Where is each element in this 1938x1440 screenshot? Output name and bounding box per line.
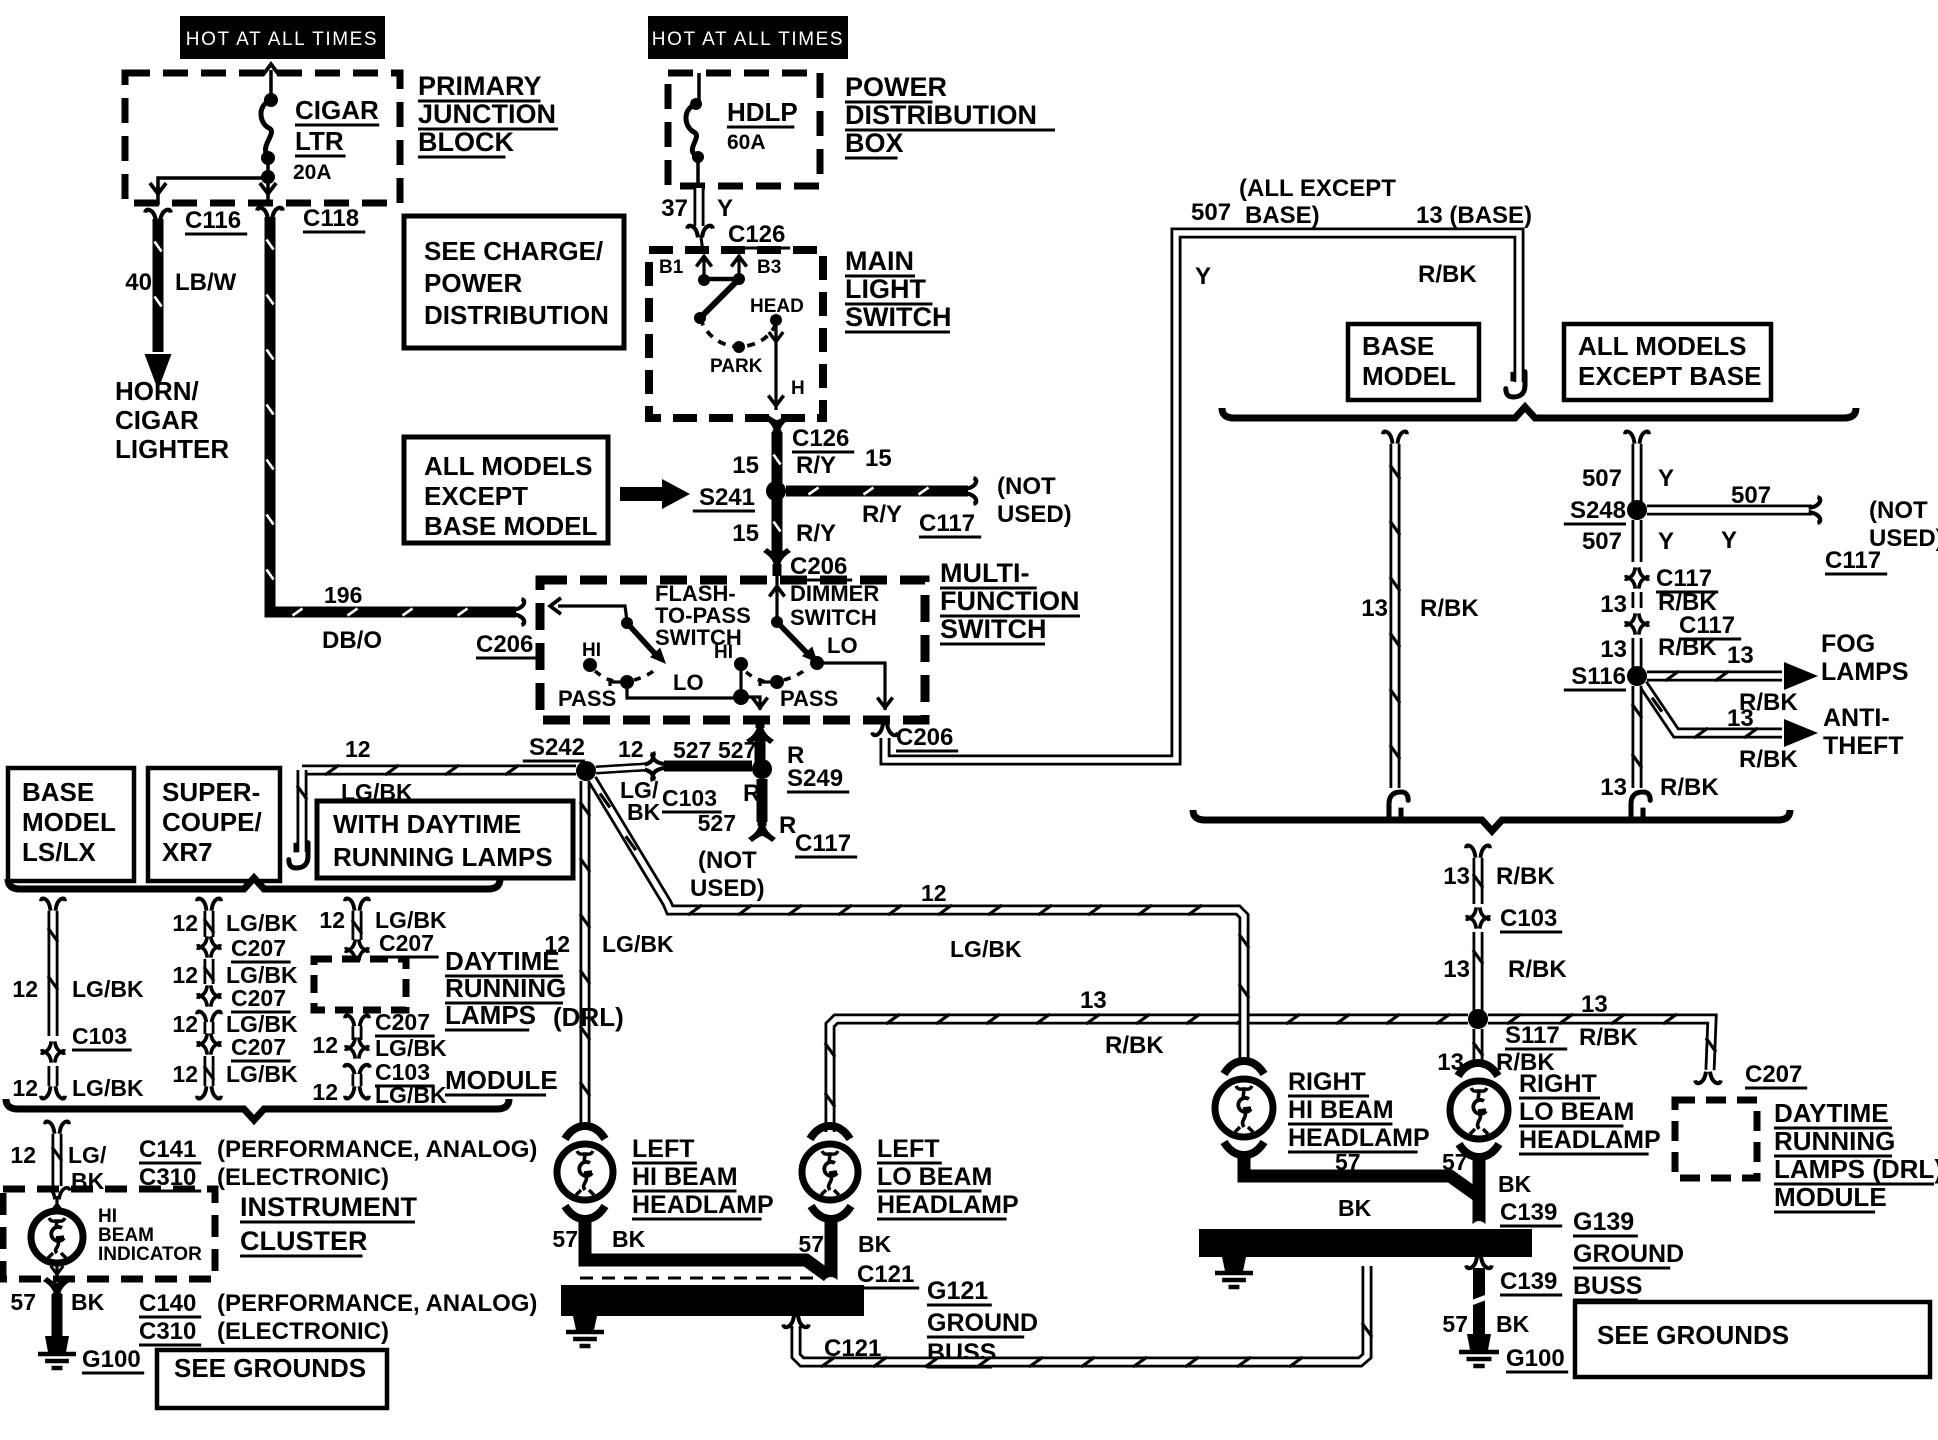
label: ALL MODELS EXCEPT BASE MODEL [404,437,608,543]
right lo beam headlamp [1458,1063,1498,1076]
svg-text:(ALL EXCEPT: (ALL EXCEPT [1239,175,1396,202]
contact HI (dimmer) [734,657,748,671]
connector C117 pair (upper) [1626,567,1648,577]
wire 12 LG/BK (to instrument cluster) [45,1121,69,1133]
svg-text:527: 527 [718,737,756,763]
svg-text:ALL MODELS: ALL MODELS [424,451,593,481]
svg-text:C116: C116 [185,207,241,234]
svg-text:BASE): BASE) [1245,202,1320,229]
position arc (dimmer) [746,672,770,682]
contact PASS (dimmer) [770,675,784,689]
svg-text:THEFT: THEFT [1823,732,1904,760]
svg-text:SWITCH: SWITCH [940,614,1046,644]
G121 ground buss bar [561,1285,864,1316]
connector pair (DRL) [346,1037,368,1047]
svg-text:LB/W: LB/W [175,269,237,296]
wire: junction-block internal to C118 [260,183,276,194]
svg-text:WITH DAYTIME: WITH DAYTIME [333,809,521,839]
flash-to-pass lever [627,623,658,657]
svg-text:C141: C141 [139,1136,196,1163]
svg-text:BASE: BASE [22,777,94,807]
wire 507 Y (S248 down) [1632,520,1643,562]
svg-text:12: 12 [618,736,644,762]
junction node (dimmer HI/PASS) [733,689,749,705]
label: BASE MODEL LS/LX box [8,768,134,881]
svg-text:C126: C126 [728,221,785,248]
svg-text:57: 57 [552,1226,578,1252]
svg-text:LG/BK: LG/BK [226,910,298,936]
svg-text:CLUSTER: CLUSTER [240,1226,368,1256]
svg-text:(ELECTRONIC): (ELECTRONIC) [217,1164,389,1191]
svg-text:H: H [791,378,805,399]
svg-text:BASE MODEL: BASE MODEL [424,511,597,541]
connector C118 [257,208,283,220]
svg-text:C310: C310 [139,1318,196,1345]
svg-text:13: 13 [1727,642,1754,669]
brace (base model / all models except base) [1222,407,1856,418]
G139 ground buss bar [1199,1229,1532,1257]
svg-text:HI BEAM: HI BEAM [632,1163,738,1191]
fuse HDLP 60A [697,73,701,100]
svg-text:13: 13 [1080,987,1107,1014]
svg-text:C139: C139 [1500,1268,1557,1295]
svg-text:C117: C117 [1656,565,1712,592]
position arc (flash-to-pass) [595,671,620,682]
svg-text:HEADLAMP: HEADLAMP [1519,1126,1661,1154]
connector C207 (DRL bottom) [345,1015,369,1027]
svg-text:BK: BK [612,1226,646,1252]
wire 13 R/BK to ANTI-THEFT (arrow) [1643,684,1782,733]
svg-text:BASE: BASE [1362,331,1434,361]
svg-text:R/BK: R/BK [1105,1032,1164,1059]
svg-text:LG/BK: LG/BK [226,1061,298,1087]
ground at G121 [573,1316,597,1330]
svg-text:PARK: PARK [710,356,763,377]
wire 13 R/BK (S117 right to C207) [1488,1019,1712,1070]
label: WITH DAYTIME RUNNING LAMPS box [317,801,573,878]
svg-text:LEFT: LEFT [877,1135,940,1163]
left hi beam headlamp [565,1126,605,1139]
svg-text:C103: C103 [662,785,717,811]
connector C140 [43,1277,71,1305]
svg-text:S117: S117 [1505,1022,1560,1049]
pointer arrow to S241 [620,487,664,501]
svg-text:C126: C126 [792,425,849,452]
svg-text:MODULE: MODULE [445,1065,558,1095]
svg-text:PRIMARY: PRIMARY [418,71,542,101]
svg-text:JUNCTION: JUNCTION [418,99,556,129]
svg-text:(PERFORMANCE, ANALOG): (PERFORMANCE, ANALOG) [217,1290,537,1317]
svg-text:13: 13 [1443,863,1470,890]
connector below left hi beam [565,1206,605,1219]
multi-function switch (dashed box) [540,580,925,720]
svg-text:FOG: FOG [1821,630,1875,658]
svg-text:57: 57 [10,1289,36,1315]
wire 57 BK (C121 to C139 long run) [796,1266,1367,1362]
node bar B1-B3 [700,277,741,282]
svg-text:G121: G121 [927,1277,988,1305]
svg-text:R/Y: R/Y [862,501,902,528]
wire 57 BK (G139 to G100) [1473,1268,1485,1334]
wire 15 R/Y (C126 to S241) [772,432,783,483]
svg-text:LG/BK: LG/BK [72,976,144,1002]
fuse CIGAR LTR 20A [263,64,279,75]
wire 527 R below S249 (not used) [757,779,768,822]
svg-text:15: 15 [865,445,892,472]
wire 15 R/Y (S241 to C117, not used) [786,486,968,497]
svg-text:HI: HI [98,1206,117,1227]
connector C207 (DRL top) [346,939,368,949]
svg-text:C207: C207 [231,985,286,1011]
svg-text:C121: C121 [857,1261,914,1288]
svg-text:SEE GROUNDS: SEE GROUNDS [1597,1320,1789,1350]
svg-text:R/Y: R/Y [796,520,836,547]
wire: flash-to-pass output to C206 (left arrow) [558,606,627,621]
svg-text:RIGHT: RIGHT [1288,1068,1366,1096]
wire 13 R/BK (S117 down to right lo beam) [1473,1029,1484,1066]
svg-text:S242: S242 [529,734,585,761]
svg-text:13: 13 [1581,991,1608,1018]
connector C121 (bottom of ground buss) [788,1316,804,1324]
svg-text:15: 15 [732,520,759,547]
splice S242 [576,761,596,781]
daytime running lamps module (dashed box, right) [1675,1100,1757,1178]
svg-text:R/BK: R/BK [1579,1024,1638,1051]
svg-text:R: R [779,812,796,839]
switch terminal B3 arrow [731,256,746,266]
svg-text:MODULE: MODULE [1774,1182,1887,1212]
wire 507 Y (all except base drop) [1625,431,1649,443]
wire from LO contact to C206 output [817,663,885,710]
svg-text:20A: 20A [293,161,332,184]
contact HI (flash-to-pass) [583,658,597,672]
svg-text:RUNNING: RUNNING [445,973,566,1003]
svg-text:RUNNING: RUNNING [1774,1126,1895,1156]
brace (left models gather) [6,1099,509,1120]
svg-text:(ELECTRONIC): (ELECTRONIC) [217,1318,389,1345]
svg-text:LIGHT: LIGHT [845,274,926,304]
splice S117 [1468,1009,1488,1029]
label: SEE GROUNDS (right box) [1575,1302,1930,1377]
connector below right hi beam [1224,1142,1264,1155]
wire 12 drop to left model brace [297,770,308,852]
wire 12 LG/BK (S242 to left hi beam headlamp) [580,781,591,1128]
wire 12 LG/BK (base model stack) [41,898,65,910]
svg-text:HEADLAMP: HEADLAMP [1288,1124,1430,1152]
svg-text:BEAM: BEAM [98,1225,154,1246]
svg-text:CIGAR: CIGAR [295,95,379,125]
svg-text:12: 12 [12,1075,38,1101]
brace (all models gather, right) [1193,810,1790,831]
svg-text:R/BK: R/BK [1420,595,1479,622]
svg-text:SEE CHARGE/: SEE CHARGE/ [424,236,603,266]
daytime running lamps module (dashed box, left) [314,959,406,1010]
svg-text:C103: C103 [72,1023,127,1049]
svg-text:DAYTIME: DAYTIME [1774,1098,1889,1128]
svg-text:LO: LO [673,670,704,695]
svg-text:MODEL: MODEL [1362,361,1456,391]
svg-text:RIGHT: RIGHT [1519,1070,1597,1098]
svg-text:MAIN: MAIN [845,246,914,276]
svg-text:LO BEAM: LO BEAM [877,1163,992,1191]
svg-text:ANTI-: ANTI- [1823,704,1890,732]
svg-text:57: 57 [1442,1311,1468,1337]
svg-text:57: 57 [798,1231,824,1257]
svg-text:LO: LO [827,633,858,658]
svg-text:12: 12 [10,1142,36,1168]
svg-text:Y: Y [1658,528,1674,555]
power distribution box (dashed) [668,73,820,186]
svg-text:LTR: LTR [295,126,344,156]
connector C207 (right DRL) [1695,1072,1721,1084]
svg-text:BK: BK [627,799,661,825]
svg-text:INDICATOR: INDICATOR [98,1244,202,1265]
svg-text:C207: C207 [1745,1061,1802,1088]
svg-text:507: 507 [1731,482,1771,509]
connector C103 (base model stack) [42,1041,64,1051]
connector C139 (bottom of G139) [1471,1257,1487,1265]
svg-text:G100: G100 [82,1346,141,1373]
ground G100 (right) [1467,1334,1491,1350]
svg-text:57: 57 [1335,1149,1361,1175]
svg-text:BLOCK: BLOCK [418,127,514,157]
main light switch (dashed box) [649,250,823,418]
connector C126 (bottom of main light switch) [763,414,791,442]
svg-text:507: 507 [1191,199,1231,226]
svg-text:R/BK: R/BK [1658,634,1717,661]
svg-text:DIMMER: DIMMER [790,581,879,606]
svg-text:13: 13 [1443,956,1470,983]
svg-text:HI: HI [714,642,733,663]
svg-text:LG/BK: LG/BK [602,931,674,957]
connector C116 [145,210,171,222]
svg-text:LG/: LG/ [68,1142,107,1168]
svg-text:12: 12 [172,1011,198,1037]
switch terminal B1 arrow [696,256,711,266]
svg-text:12: 12 [319,907,345,933]
svg-text:13: 13 [1600,591,1627,618]
wire 57 BK (to G100 left) [52,1294,63,1338]
connector C207 (3) [198,1033,220,1043]
svg-text:RUNNING LAMPS: RUNNING LAMPS [333,842,553,872]
svg-text:(DRL): (DRL) [553,1002,624,1032]
wire 12 LG/BK (S242 diagonal to right hi beam headlamp) [592,779,1244,1064]
wire 12 LG/BK (super coupe stack) [197,898,221,910]
svg-text:B3: B3 [757,257,781,278]
svg-text:BK: BK [1498,1171,1532,1197]
svg-text:R: R [743,780,760,807]
wire 13 R/BK to FOG LAMPS (arrow) [1647,671,1782,682]
svg-text:LG/BK: LG/BK [375,1035,447,1061]
svg-text:USED): USED) [997,501,1072,528]
svg-text:C207: C207 [231,935,286,961]
svg-text:12: 12 [172,962,198,988]
svg-text:MULTI-: MULTI- [940,558,1029,588]
svg-text:EXCEPT BASE: EXCEPT BASE [1578,361,1762,391]
wire R (to S249) [755,735,766,764]
svg-text:37: 37 [661,195,688,222]
svg-text:57: 57 [1442,1149,1468,1175]
svg-text:LG/BK: LG/BK [375,1082,447,1108]
svg-text:12: 12 [172,910,198,936]
connector C117 pair (lower) [1626,613,1648,623]
ground G100 (left) [45,1336,69,1352]
dimmer switch pivot [769,586,784,596]
svg-text:LO BEAM: LO BEAM [1519,1098,1634,1126]
label: HOT AT ALL TIMES (middle) [648,16,848,59]
contact LO (dimmer) [810,656,824,670]
svg-text:DISTRIBUTION: DISTRIBUTION [845,100,1037,130]
wire 13 R/BK (base model drop) [1383,431,1407,443]
svg-text:15: 15 [732,452,759,479]
svg-text:BK: BK [1496,1311,1530,1337]
wire 57 BK (right hi beam ground) [1244,1154,1478,1196]
svg-text:C206: C206 [896,724,953,751]
svg-text:196: 196 [324,582,362,608]
svg-text:G100: G100 [1506,1345,1565,1372]
svg-text:HORN/: HORN/ [115,376,199,406]
connector C126 (top) [687,226,713,238]
svg-text:CIGAR: CIGAR [115,405,199,435]
connector below right lo beam [1459,1144,1499,1157]
wire 12 LG/BK from S242 to C103 [596,767,645,770]
wire 13 R/BK (S116 down) [1632,686,1643,788]
svg-text:507: 507 [1582,528,1622,555]
svg-text:LAMPS (DRL): LAMPS (DRL) [1774,1154,1938,1184]
svg-text:BUSS: BUSS [1573,1272,1642,1300]
svg-text:HOT AT ALL TIMES: HOT AT ALL TIMES [186,29,378,50]
svg-text:C139: C139 [1500,1199,1557,1226]
connector C206 output (right) [872,724,898,736]
svg-text:DISTRIBUTION: DISTRIBUTION [424,300,609,330]
svg-text:SWITCH: SWITCH [845,302,951,332]
dimmer lever [777,622,810,656]
svg-text:HI: HI [582,640,601,661]
svg-text:B1: B1 [659,257,684,278]
svg-text:C206: C206 [476,631,533,658]
svg-text:USED): USED) [1869,525,1938,552]
svg-text:13: 13 [1727,705,1754,732]
svg-text:527: 527 [698,810,736,836]
svg-text:Y: Y [717,195,733,222]
svg-text:LG/BK: LG/BK [950,936,1022,962]
svg-text:USED): USED) [690,875,765,902]
svg-text:ALL MODELS: ALL MODELS [1578,331,1747,361]
svg-text:BK: BK [1338,1195,1372,1221]
svg-text:COUPE/: COUPE/ [162,807,262,837]
svg-text:13: 13 [1600,636,1627,663]
flash-to-pass pivot [621,617,633,629]
svg-text:C140: C140 [139,1290,196,1317]
svg-text:Y: Y [1658,465,1674,492]
svg-text:(PERFORMANCE, ANALOG): (PERFORMANCE, ANALOG) [217,1136,537,1163]
svg-text:527: 527 [673,737,711,763]
connector C103 pair (right) [1467,907,1489,917]
wire 13 R/BK to S116 [1632,638,1643,668]
wire 13 R/BK [1632,592,1643,608]
svg-text:C117: C117 [795,830,851,857]
svg-text:POWER: POWER [424,268,522,298]
wire 12 LG/BK (lower) [48,1066,59,1086]
svg-text:HOT AT ALL TIMES: HOT AT ALL TIMES [652,29,844,50]
wire from junction to S249 output [741,697,760,710]
connector (multi-function to S249) [746,716,774,744]
svg-text:13 (BASE): 13 (BASE) [1416,202,1532,229]
splice S241 [766,481,786,501]
svg-text:DB/O: DB/O [322,627,382,654]
wire 12 LG/BK (left run to S242) [302,765,576,776]
svg-text:C103: C103 [1500,905,1557,932]
switch position arc PARK/HEAD [700,318,776,347]
svg-text:C118: C118 [303,205,359,232]
svg-text:S116: S116 [1571,663,1626,690]
svg-text:S241: S241 [699,484,755,511]
svg-text:BK: BK [71,1289,105,1315]
svg-text:SUPER-: SUPER- [162,777,260,807]
connector C103 (DRL) [344,1065,370,1077]
svg-text:(NOT: (NOT [997,473,1056,500]
contact PASS (flash-to-pass) [620,675,634,689]
svg-text:R/BK: R/BK [1418,261,1477,288]
hi beam indicator lamp [44,1188,70,1200]
svg-text:12: 12 [312,1079,338,1105]
svg-text:LAMPS: LAMPS [1821,658,1909,686]
wire from PASS contact to dimmer junction [627,688,739,698]
svg-text:12: 12 [12,976,38,1002]
wire 37 Y from HDLP fuse to C126 [694,188,705,226]
instrument cluster (dashed box) [3,1189,215,1279]
svg-text:HEAD: HEAD [750,296,804,317]
svg-text:XR7: XR7 [162,837,213,867]
svg-text:R/BK: R/BK [1496,863,1555,890]
svg-text:EXCEPT: EXCEPT [424,481,528,511]
left lo beam headlamp [810,1126,850,1139]
svg-text:12: 12 [172,1061,198,1087]
svg-text:GROUND: GROUND [927,1309,1038,1337]
wire H from HEAD contact down [774,326,777,410]
svg-text:DAYTIME: DAYTIME [445,946,560,976]
connector C207 (2) [198,985,220,995]
label: HOT AT ALL TIMES (left) [180,16,385,59]
svg-text:POWER: POWER [845,72,947,102]
wire 507 Y (S248 to C117 not used) [1647,505,1812,516]
svg-text:12: 12 [345,736,371,762]
svg-text:SWITCH: SWITCH [790,605,877,630]
wire 527 R (S249 to C103) [664,761,752,772]
wire 13 R/BK (horizontal to left lo beam) [830,1019,1468,1132]
svg-text:C117: C117 [919,510,975,537]
brace (left models) [8,878,500,889]
svg-text:FUNCTION: FUNCTION [940,586,1079,616]
label: ALL MODELS EXCEPT BASE box [1564,324,1771,400]
dashed jumper above G121 [580,1277,820,1280]
wire 40 LB/W to horn/cigar lighter [153,219,164,352]
svg-text:(NOT: (NOT [1869,497,1928,524]
wire 507 Y / 13 R-BK loop (C206 to base-model brace) [885,233,1519,760]
wire 15 R/Y (S241 to C206) [772,499,783,554]
svg-text:HEADLAMP: HEADLAMP [877,1191,1019,1219]
svg-text:13: 13 [1361,595,1388,622]
svg-text:LG/BK: LG/BK [72,1075,144,1101]
label: SEE GROUNDS (left box) [157,1350,387,1408]
svg-text:HEADLAMP: HEADLAMP [632,1191,774,1219]
label: SEE CHARGE/POWER DISTRIBUTION box [404,216,624,348]
connector C206 (to multi-function switch) [513,599,525,625]
svg-text:BOX: BOX [845,128,904,158]
svg-text:507: 507 [1582,465,1622,492]
svg-text:40: 40 [125,269,152,296]
switch lever (main light switch) [700,279,739,318]
